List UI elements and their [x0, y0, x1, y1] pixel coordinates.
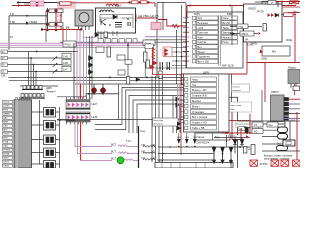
- resistor R35: [146, 60, 149, 68]
- svg-text:Сен: Сен: [140, 129, 146, 133]
- red block b1: [250, 160, 258, 166]
- wire x176.5 vertical: [176, 30, 178, 84]
- ground g2: [221, 154, 224, 164]
- node dots bottom: [162, 146, 241, 161]
- wire red x80.5: [80, 84, 82, 99]
- wire route1b right: [119, 119, 187, 121]
- ЦН pin ticks top: [67, 97, 91, 100]
- svg-text:СМ: СМ: [1, 74, 6, 78]
- wire bundle x159: [158, 76, 160, 162]
- svg-text:ЧКл: ЧКл: [198, 17, 203, 20]
- wire bundle x162.5: [162, 76, 164, 162]
- inductor L2: [100, 10, 112, 12]
- diode pair D8: [89, 56, 94, 75]
- box СМС: [117, 55, 125, 60]
- LED HL2: [100, 88, 105, 93]
- node dot top: [17, 2, 19, 4]
- svg-text:ВКЛ: ВКЛ: [3, 130, 8, 132]
- svg-text:ПМС1: ПМС1: [241, 32, 249, 36]
- node red dots top: [128, 1, 149, 3]
- node red dots y133: [226, 132, 249, 134]
- resistor R61: [251, 145, 255, 155]
- ground g3: [229, 161, 232, 164]
- box РО54: [145, 44, 154, 49]
- box Кнопль: [236, 121, 260, 128]
- resistor R36: [159, 71, 162, 79]
- LED green HL3: [117, 157, 124, 164]
- wire y68: [148, 67, 186, 69]
- U2 rows: [191, 77, 217, 130]
- transformer bobbin: [244, 128, 250, 133]
- capacitor C24: [128, 22, 130, 26]
- diode box ДЛ: [262, 1, 276, 8]
- svg-text:146: 146: [141, 151, 146, 154]
- node dots y93.8: [88, 93, 104, 95]
- fuse red F22: [141, 1, 148, 4]
- wire red ladder bottom: [41, 29, 81, 31]
- svg-text:ЦН9: ЦН9: [92, 115, 98, 119]
- wire red x297: [296, 112, 298, 160]
- resistor R53: [263, 24, 266, 32]
- wire y26.5: [230, 26, 262, 28]
- inductor pink L13: [124, 159, 139, 161]
- svg-text:Часов: Часов: [197, 135, 205, 139]
- wire red bus top: [57, 3, 155, 7]
- node dot1: [189, 5, 191, 7]
- svg-text:233: 233: [24, 2, 30, 6]
- svg-text:Завтрак: Завтрак: [223, 32, 233, 35]
- diode D54: [232, 32, 236, 36]
- box МЛ: [262, 46, 290, 56]
- box 502: [238, 127, 246, 131]
- svg-text:Часть-обм.: Часть-обм.: [231, 105, 243, 107]
- node ladder dots: [46, 9, 57, 31]
- svg-text:СчВ: СчВ: [63, 61, 68, 65]
- resistor R233: [60, 2, 72, 5]
- fuse red F21: [132, 1, 139, 4]
- ladder rail left: [47, 8, 49, 30]
- wire x186 vertical: [185, 3, 187, 68]
- wire red x265: [264, 63, 266, 103]
- svg-text:АО: АО: [254, 131, 258, 134]
- node arrow mid2: [18, 4, 22, 7]
- inductor L21: [143, 146, 155, 147]
- resistor R22: [104, 32, 107, 38]
- relay box ДМ7 top2: [57, 9, 63, 13]
- relay box ДМ7 bot2: [57, 23, 63, 27]
- svg-text:РЧТВ: РЧТВ: [257, 10, 264, 13]
- svg-text:23+1: 23+1: [57, 15, 63, 18]
- svg-text:Кнопка: Кнопка: [233, 86, 241, 88]
- svg-text:Часы-буд: Часы-буд: [154, 120, 164, 122]
- svg-text:ЧАС: ЧАС: [3, 117, 8, 120]
- diode block ЦН9: [66, 112, 98, 122]
- IC U1 left rows: [197, 16, 219, 63]
- node dot2: [229, 5, 231, 7]
- wire long y84: [75, 83, 186, 85]
- wire red y7: [283, 6, 300, 8]
- transistor Q21: [101, 19, 106, 25]
- wire y96.8: [57, 94, 86, 97]
- wire vertical black x157: [156, 3, 158, 78]
- inductor L23: [143, 159, 155, 160]
- box АО: [252, 129, 263, 134]
- IC U1 right pin diamonds: [243, 17, 245, 39]
- wire vertical x128: [127, 42, 129, 77]
- svg-text:146: 146: [151, 144, 156, 147]
- inductor pink L12: [118, 152, 139, 154]
- svg-text:МОЩ: МОЩ: [286, 39, 293, 42]
- svg-text:Тайм + ПВ: Тайм + ПВ: [192, 127, 205, 130]
- wire black y137.5: [214, 137, 250, 139]
- svg-text:АД УВА АД УВ: АД УВА АД УВ: [138, 14, 158, 18]
- wire black x237.5: [237, 97, 239, 168]
- wire black Т4Г: [9, 15, 48, 17]
- red diode D40: [151, 65, 155, 69]
- wire red x247: [246, 42, 248, 74]
- inductor pink L11: [118, 145, 139, 147]
- svg-text:ЦМ5: ЦМ5: [46, 86, 52, 90]
- wires pill rungs: [262, 124, 285, 144]
- svg-text:Часы: Часы: [223, 17, 229, 20]
- wire pink x179.2: [178, 84, 180, 126]
- svg-text:ПУСК: ПУСК: [3, 102, 10, 104]
- svg-text:СЕТЬ: СЕТЬ: [3, 162, 9, 164]
- wire opto stubs left: [32, 112, 44, 164]
- svg-text:Т-РА: Т-РА: [3, 141, 8, 144]
- box Удл: [267, 122, 278, 127]
- wire bundle x176.5: [176, 100, 178, 133]
- wire black v92: [91, 36, 93, 99]
- svg-text:Пони тан.: Пони тан.: [198, 32, 210, 35]
- IC U1 inner verticals: [219, 15, 221, 66]
- opto T3: [44, 135, 56, 145]
- svg-text:П14: П14: [239, 25, 244, 29]
- wire U20 out dk2: [289, 113, 301, 115]
- svg-text:Вкл + резерв: Вкл + резерв: [192, 116, 208, 119]
- wire red x229: [226, 74, 228, 143]
- box АЦ2: [283, 140, 295, 146]
- svg-text:142: 142: [151, 157, 156, 160]
- node dots mid: [90, 44, 148, 81]
- diode pair D5T: [177, 122, 181, 131]
- wire U20 out blk: [289, 117, 301, 119]
- resistor R60: [244, 147, 247, 154]
- relay ПМС1: [240, 31, 254, 36]
- opto T5: [44, 161, 56, 169]
- wire y160: [158, 159, 214, 161]
- wire bundle x180: [179, 104, 181, 133]
- svg-text:Минус: Минус: [198, 51, 206, 54]
- IC U10 body: [14, 100, 32, 168]
- wire red x181 drop: [180, 75, 182, 156]
- connector X04: [1, 50, 8, 53]
- opto T1: [44, 108, 56, 118]
- fuse F1: [278, 127, 288, 133]
- node A1 dots: [99, 11, 129, 26]
- counter box СчВ: [62, 60, 71, 65]
- wire stem HL1: [93, 84, 95, 94]
- box Часть-обмотка: [230, 102, 252, 112]
- wire black y71.5: [8, 71, 63, 73]
- wire red feeder 233: [12, 5, 40, 7]
- wire black y51.5: [8, 51, 79, 53]
- svg-text:СМУ4 ВСУ4: СМУ4 ВСУ4: [196, 141, 210, 144]
- wire black y2 top: [255, 2, 278, 7]
- motor pins: [79, 26, 90, 30]
- box Час Буд: [195, 133, 230, 140]
- wire magenta y45.2: [0, 44, 152, 46]
- capacitor C25: [151, 23, 161, 30]
- box Часы-буд: [153, 118, 179, 126]
- wire drops to resistor net: [29, 52, 37, 90]
- wire vertical x232: [231, 6, 233, 46]
- svg-text:ТАЙМ: ТАЙМ: [3, 113, 9, 116]
- svg-text:Радиат: Радиат: [288, 67, 297, 70]
- node pin dots: [176, 47, 187, 62]
- svg-text:Никл: Никл: [223, 41, 229, 44]
- box АПВ: [252, 127, 259, 131]
- wire black x285: [284, 121, 286, 145]
- module box ЛМ25: [244, 4, 283, 42]
- svg-text:ОБЩ: ОБЩ: [3, 166, 8, 168]
- svg-text:+100: +100: [198, 27, 204, 30]
- red resistor РЛ05: [152, 48, 155, 60]
- wire y80.3: [9, 79, 186, 81]
- box СчС: [125, 60, 132, 64]
- svg-text:ОТКЛ: ОТКЛ: [3, 134, 9, 136]
- svg-text:Удл: Удл: [269, 124, 274, 127]
- wire red y133: [222, 132, 262, 134]
- connector column J1: [3, 100, 13, 167]
- heatsink Q30: [288, 70, 300, 84]
- svg-text:ЗУ 4.7РП 14.3: ЗУ 4.7РП 14.3: [16, 98, 30, 100]
- svg-text:12МЗ: 12МЗ: [247, 44, 254, 47]
- red block b4: [293, 160, 301, 166]
- transistor Q5 arrows: [53, 57, 58, 74]
- wire black v74: [73, 43, 75, 99]
- connector X11: [1, 70, 8, 73]
- svg-text:СТОП: СТОП: [3, 106, 9, 108]
- svg-text:СчБ: СчБ: [63, 54, 68, 58]
- wire black left vertical: [8, 16, 10, 50]
- IC U10 top ticks: [16, 97, 30, 100]
- svg-text:СчГ: СчГ: [63, 67, 68, 71]
- svg-text:РЧ10: РЧ10: [65, 43, 72, 47]
- ЦН pin ticks bottom: [67, 122, 87, 125]
- relay П14: [237, 24, 248, 29]
- wire red y74.5: [152, 74, 181, 76]
- diode col V1: [212, 147, 216, 161]
- diamond red bottom: [246, 135, 249, 138]
- svg-text:АР: АР: [245, 39, 249, 42]
- wire long y77.5: [9, 77, 187, 79]
- wire black y120 stub: [57, 119, 75, 121]
- capacitor C12: [160, 62, 170, 70]
- diode pair bundle: [176, 97, 181, 108]
- box red X corner: [290, 1, 299, 4]
- resistor R31: [107, 47, 110, 57]
- wire purple МАЛ: [284, 118, 300, 120]
- wire red top edge: [268, 1, 300, 3]
- svg-text:ВСТ: ВСТ: [111, 157, 116, 161]
- wire pink v4: [83, 30, 85, 99]
- resistor ШУЗ: [96, 47, 104, 53]
- wire red top y5.5: [187, 5, 296, 7]
- wire black y58: [8, 57, 63, 59]
- diode col V2: [221, 147, 225, 161]
- svg-text:Автокл: Автокл: [223, 36, 232, 39]
- opto T2: [44, 121, 56, 131]
- wire pink x177.5: [177, 84, 179, 126]
- svg-text:Установка: Установка: [192, 111, 204, 114]
- svg-text:Т4Г: Т4Г: [10, 12, 15, 16]
- inductor L22: [143, 152, 155, 153]
- svg-text:ЗГРМ: ЗГРМ: [260, 162, 268, 166]
- wire bundle x155.5: [155, 76, 157, 162]
- wire red y12.5: [288, 12, 300, 14]
- box УЗ: [252, 122, 263, 127]
- box Д0: [118, 70, 125, 75]
- wire red x232: [232, 112, 241, 140]
- svg-text:ГРИЛЬ: ГРИЛЬ: [3, 150, 11, 152]
- wire red x294.5: [294, 84, 296, 95]
- svg-text:ПΩЕЗ: ПΩЕЗ: [30, 20, 38, 24]
- svg-text:РЕВ: РЕВ: [3, 138, 8, 140]
- box small q30: [293, 86, 300, 91]
- U20 pins: [284, 98, 289, 121]
- box Кнопка-обм: [232, 84, 250, 92]
- connector J1 labels: [3, 102, 11, 168]
- wire black y121: [238, 120, 301, 122]
- svg-text:ЗВУК: ЗВУК: [3, 158, 9, 160]
- wire pink v2: [76, 30, 78, 99]
- IC U1 left pin squares: [192, 16, 195, 63]
- wire pink y37.5: [83, 37, 95, 39]
- diode bank2: [233, 138, 237, 154]
- U2 inner vertical: [218, 74, 220, 132]
- node arrow mid: [37, 4, 41, 7]
- wire y147: [158, 146, 250, 148]
- wire route6: [137, 104, 186, 133]
- svg-text:Подсветка: Подсветка: [198, 56, 211, 59]
- svg-text:МДА: МДА: [115, 4, 121, 8]
- wire gray v86: [86, 36, 88, 99]
- diode col V3: [229, 147, 233, 169]
- wire red x295: [294, 13, 296, 63]
- diode block ЦН7: [66, 100, 98, 110]
- motor M1: [75, 10, 93, 26]
- wire black y97.3: [230, 96, 238, 98]
- wire red x231.5: [231, 74, 233, 112]
- U2 left pin squares: [185, 78, 188, 130]
- LED HL1: [91, 88, 96, 93]
- svg-text:КМГ-103 В: КМГ-103 В: [222, 65, 234, 68]
- wire pink v3: [79, 30, 81, 99]
- wire black y64.5: [8, 64, 63, 66]
- svg-text:Чton: Чton: [198, 36, 204, 39]
- IC pin wires: [172, 48, 192, 66]
- wire diode stubs: [179, 133, 195, 139]
- svg-text:МЛ: МЛ: [272, 50, 276, 54]
- svg-text:МИН: МИН: [3, 122, 8, 124]
- wire lavender bus: [145, 36, 196, 38]
- ShR9 pin ticks: [182, 79, 185, 122]
- wire black y39.8: [145, 39, 196, 41]
- svg-text:СЕК: СЕК: [3, 126, 8, 128]
- wire pink highlight zone: [57, 1, 76, 9]
- node dots left lines: [30, 51, 37, 73]
- wire gray y47.3: [0, 46, 152, 48]
- svg-text:Тайм.: Тайм.: [223, 27, 230, 30]
- inductor L1: [106, 4, 118, 6]
- IC U2 ШР9: [184, 74, 230, 132]
- wire pink drop3: [81, 160, 113, 162]
- IC U1 right rows: [222, 16, 238, 44]
- svg-text:Управл + АО: Управл + АО: [192, 122, 207, 125]
- red block b3: [281, 160, 289, 166]
- wire red x250: [249, 114, 251, 134]
- box РЧ04: [143, 40, 155, 46]
- resistor Т52: [144, 52, 148, 62]
- wire y86: [20, 85, 58, 87]
- svg-text:КОНВ: КОНВ: [3, 154, 10, 156]
- wire black ladder vertical: [45, 11, 47, 42]
- wire block corner drop: [226, 135, 228, 147]
- wire red x187: [186, 6, 188, 19]
- svg-text:Резонанс: Резонанс: [198, 22, 210, 25]
- wire y153.5: [158, 153, 214, 155]
- IC U1 outline: [187, 12, 244, 68]
- svg-text:ЦН7: ЦН7: [92, 102, 98, 106]
- ladder rail far right: [60, 8, 62, 30]
- wire black v89: [89, 36, 91, 99]
- wire U20 out purple2: [289, 108, 301, 110]
- svg-text:Выключ: Выключ: [192, 100, 202, 103]
- wire pink drop1: [75, 122, 112, 147]
- svg-text:Вкл-Выкл: Вкл-Выкл: [154, 124, 164, 126]
- svg-text:ВСТ: ВСТ: [111, 143, 116, 147]
- resistor network RN1: [20, 86, 45, 99]
- wire red x282: [281, 2, 283, 10]
- ground g1: [212, 147, 215, 163]
- diode small ПΩЕЗ: [26, 21, 29, 24]
- svg-text:обмотка: обмотка: [233, 90, 242, 92]
- wire red y62.5: [247, 62, 300, 64]
- wire route4: [129, 96, 186, 134]
- svg-text:Часы: Часы: [192, 78, 198, 81]
- wire black x290: [289, 121, 291, 140]
- wire y2.5 link: [157, 2, 186, 4]
- wire U20 out red: [289, 98, 301, 100]
- svg-text:Т350: Т350: [157, 159, 163, 163]
- wire gray vertical: [66, 27, 68, 44]
- module box A1: [96, 8, 136, 33]
- diamond red m2: [259, 32, 261, 35]
- svg-text:ЛМ25: ЛМ25: [248, 7, 256, 11]
- box 17: [268, 1, 276, 5]
- resistor red R70: [284, 13, 294, 17]
- diode pair D51: [275, 13, 279, 17]
- svg-text:Вывод + 100: Вывод + 100: [192, 89, 207, 92]
- wire A1 drops: [98, 31, 117, 39]
- svg-text:ВСТ: ВСТ: [111, 150, 116, 154]
- resistor red АК: [172, 24, 179, 28]
- wire black y151: [262, 150, 300, 152]
- wire A1 inner: [100, 15, 133, 29]
- node dot3: [281, 1, 283, 3]
- diode D21: [113, 15, 117, 19]
